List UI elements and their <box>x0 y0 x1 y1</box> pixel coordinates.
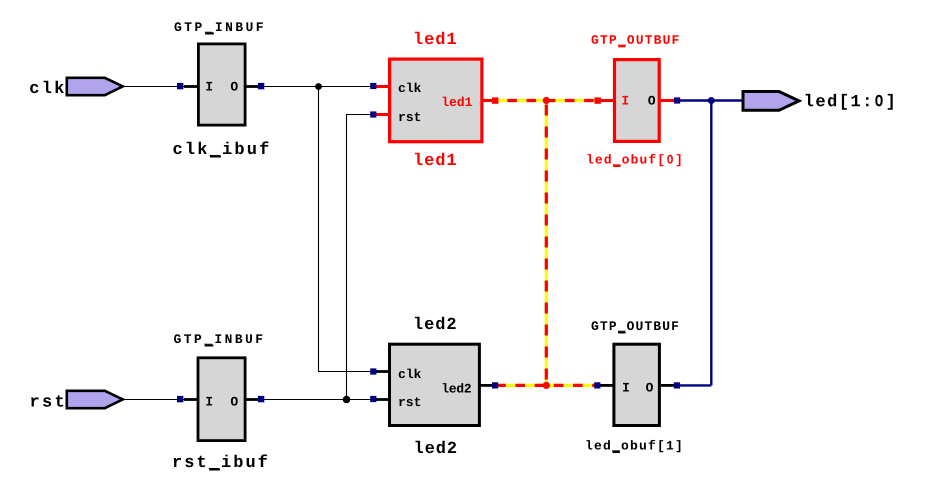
label rst_ibuf <box>174 454 268 468</box>
module led2 clk pin stub <box>374 370 390 373</box>
module led2 rst pin stub <box>374 398 390 401</box>
pin square led1 output (red) <box>492 97 498 103</box>
pin rst of led2 <box>399 397 420 406</box>
pin square led1 clk <box>370 83 376 89</box>
wire clk net: horizontal into led2 clk <box>318 371 373 373</box>
label led_obuf[0] <box>587 154 680 166</box>
pin led1 output label <box>443 97 472 107</box>
node highlighted junction bottom <box>543 382 550 389</box>
pin led2 output label <box>443 383 471 393</box>
module led1 output stub <box>482 99 492 102</box>
label led2 title <box>415 317 456 330</box>
wire highlighted net led2: yellow base horizontal bottom <box>494 384 599 387</box>
pin O of led_obuf[1] <box>646 383 653 392</box>
pin I of clk_ibuf <box>206 82 212 91</box>
pin square led_obuf[1] input (navy) <box>594 382 600 388</box>
wire clk net: port to ibuf <box>122 86 198 88</box>
pin I of led_obuf[0] <box>622 96 628 105</box>
pin square clk_ibuf output <box>258 83 264 89</box>
label led2 instance <box>415 441 456 454</box>
wire highlighted net: red dashes vertical <box>545 105 548 386</box>
buffer led_obuf[0] output stub (red) <box>660 99 679 102</box>
buffer led_obuf[0] input stub (red) <box>600 99 614 102</box>
node highlighted junction top <box>543 97 550 104</box>
pin square clk_ibuf input <box>177 83 183 89</box>
label led[1:0] <box>806 94 893 110</box>
module led2 output stub <box>479 384 494 387</box>
pin square led_obuf[0] output (navy) <box>674 97 680 103</box>
buffer led_obuf[1] input stub <box>598 384 613 387</box>
wire rst net: vertical leg up to led1 <box>346 115 348 400</box>
wire highlighted net led2: red dashes horizontal bottom <box>496 384 599 387</box>
wire rst net: port to ibuf <box>122 399 198 401</box>
label led1 instance <box>415 153 456 166</box>
node navy junction <box>708 97 715 104</box>
pin I of led_obuf[1] <box>623 383 629 392</box>
label clk <box>30 81 64 94</box>
pin square rst_ibuf input <box>177 396 183 402</box>
wire clk net: vertical leg down to led2 <box>318 87 320 372</box>
label led_obuf[1] <box>586 440 680 452</box>
buffer rst_ibuf input stub <box>184 398 199 401</box>
pin square led2 output (navy) <box>492 382 498 388</box>
wire rst net: ibuf output to led2 rst <box>259 399 373 401</box>
label GTP_INBUF (clk) <box>175 22 263 32</box>
label GTP_INBUF (rst) <box>174 334 262 344</box>
buffer led_obuf[0] body (highlighted) <box>615 60 660 142</box>
buffer led_obuf[1] output stub <box>661 384 675 387</box>
buffer clk_ibuf output stub <box>245 85 259 88</box>
pin square led1 rst <box>370 111 376 117</box>
wire rst net: horizontal into led1 rst <box>346 114 373 116</box>
pin rst of led1 <box>399 112 420 121</box>
input port clk <box>67 78 123 95</box>
label GTP_OUTBUF (bottom) <box>592 321 679 331</box>
module led1 body (highlighted) <box>390 59 482 142</box>
wire highlighted net: yellow base vertical <box>545 101 548 386</box>
node clk junction <box>315 83 322 90</box>
buffer clk_ibuf body <box>198 44 245 125</box>
wire navy bus: vertical <box>710 101 712 386</box>
module led2 body <box>390 344 480 425</box>
label rst <box>31 395 63 407</box>
node rst junction <box>343 396 351 404</box>
pin square rst_ibuf output <box>258 396 264 402</box>
pin O of rst_ibuf <box>231 397 238 406</box>
buffer rst_ibuf body <box>198 358 245 441</box>
wire highlighted net led1: yellow base horizontal top <box>492 99 601 102</box>
buffer clk_ibuf input stub <box>184 85 199 88</box>
pin square led_obuf[1] output (navy) <box>674 382 680 388</box>
pin square led2 clk <box>370 368 376 374</box>
output port led[1:0] <box>743 92 799 111</box>
pin I of rst_ibuf <box>206 397 212 406</box>
label clk_ibuf <box>173 141 268 155</box>
pin clk of led2 <box>399 369 421 379</box>
module led1 clk pin stub <box>374 85 390 88</box>
label GTP_OUTBUF (top) <box>592 35 679 45</box>
wire clk net: ibuf output to led1 clk <box>259 86 373 88</box>
buffer led_obuf[1] body <box>614 344 660 425</box>
module led1 rst pin stub <box>374 113 390 116</box>
wire highlighted net led1: red dashes horizontal top <box>492 99 601 102</box>
pin square led2 rst <box>370 396 376 402</box>
pin O of clk_ibuf <box>231 82 238 91</box>
input port rst <box>67 391 123 408</box>
wire navy bus: obuf0 output to port <box>678 99 743 101</box>
buffer rst_ibuf output stub <box>245 398 259 401</box>
label led1 title <box>415 32 456 45</box>
pin O of led_obuf[0] <box>648 96 655 105</box>
pin clk of led1 <box>399 83 421 93</box>
pin square led_obuf[0] input (red) <box>595 97 601 103</box>
wire navy bus: obuf1 output leg <box>674 384 711 386</box>
